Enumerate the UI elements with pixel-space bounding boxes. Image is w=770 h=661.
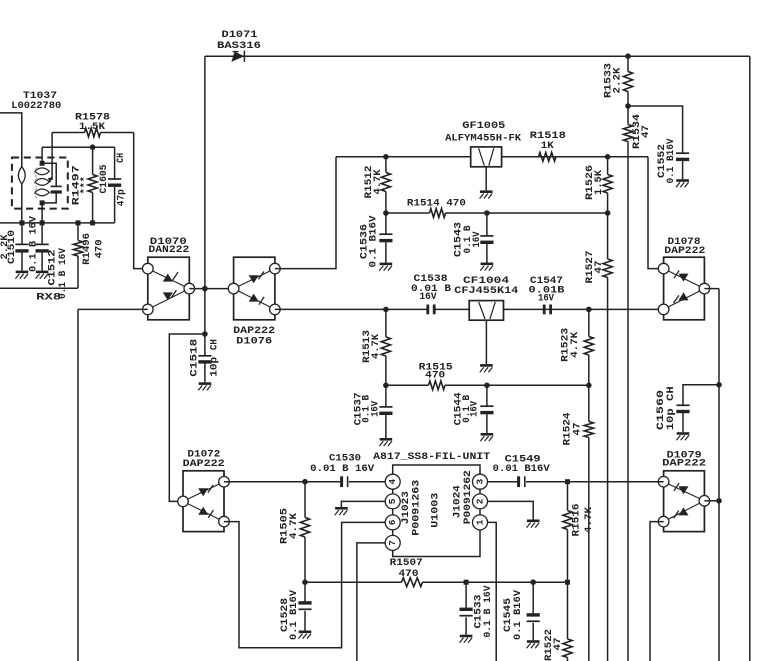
wire GF1005 bus (y=157) xyxy=(336,156,648,158)
svg-text:47: 47 xyxy=(593,261,605,274)
node junction R1516/R1522/bus xyxy=(565,580,570,585)
capacitor C1549 0.01 B16V xyxy=(493,453,551,487)
diode array D1076 DAP222 xyxy=(228,257,280,348)
svg-text:16V: 16V xyxy=(471,231,483,248)
svg-text:0.1 B16V: 0.1 B16V xyxy=(368,215,380,268)
svg-text:RX8: RX8 xyxy=(36,292,61,304)
svg-text:4.7K: 4.7K xyxy=(569,331,581,358)
internal capacitor of T1037 with branch wires xyxy=(42,163,62,203)
capacitor C1537 0.1 B 16V xyxy=(353,385,393,446)
capacitor C1538 0.01 B 16V xyxy=(411,273,452,314)
svg-text:47: 47 xyxy=(552,638,564,651)
node junction top rail / R1533 xyxy=(625,53,631,59)
resistor R1523 4.7K xyxy=(560,309,594,385)
svg-text:C1518: C1518 xyxy=(188,339,200,377)
svg-text:1.5K: 1.5K xyxy=(593,169,605,195)
wire branch to D1072 via left route xyxy=(169,334,205,501)
diode D1071 BAS316 on top rail xyxy=(217,29,261,62)
svg-text:47: 47 xyxy=(572,423,584,436)
svg-text:16V: 16V xyxy=(420,291,438,303)
capacitor C1533 0.1 B 16V xyxy=(460,582,494,643)
capacitor C1518 10p CH xyxy=(188,334,220,390)
node junction D1076/R1513 xyxy=(383,307,389,313)
svg-text:A817_SS8-FIL-UNIT: A817_SS8-FIL-UNIT xyxy=(373,451,490,463)
node junction C1518 branch xyxy=(202,331,208,337)
node junction C1545/bus xyxy=(530,579,536,585)
svg-text:0.1 B16V: 0.1 B16V xyxy=(512,589,524,640)
diode array D1079 DAP222 xyxy=(658,450,709,532)
diode array D1072 DAP222 xyxy=(178,449,230,532)
svg-text:DAP222: DAP222 xyxy=(664,245,705,257)
wire pin5 to ground xyxy=(341,501,385,507)
node junction C1560 branch xyxy=(716,382,722,388)
capacitor C1545 0.1 B16V xyxy=(502,582,540,648)
svg-text:6: 6 xyxy=(387,519,398,525)
transformer T1037 dashed body box xyxy=(12,158,68,209)
node junction R1526/bus xyxy=(605,154,611,160)
wire CF1004 bus (y=309) xyxy=(275,308,664,310)
wire vertical from top rail down to D1070/D1076 junction xyxy=(204,56,206,288)
svg-text:1: 1 xyxy=(475,519,486,525)
svg-text:7: 7 xyxy=(387,540,398,546)
svg-text:10p: 10p xyxy=(208,357,220,377)
wire secondary top up to C1605 bus xyxy=(41,147,43,163)
wire pin3 to C1549 xyxy=(488,481,519,483)
svg-text:U1003: U1003 xyxy=(429,493,441,528)
capacitor C1536 0.1 B16V xyxy=(358,213,392,271)
svg-text:DAP222: DAP222 xyxy=(662,457,706,469)
resistor R1515 470 xyxy=(419,362,453,390)
svg-text:0.01 B16V: 0.01 B16V xyxy=(493,463,551,475)
wire D1079 mid pin to x719 column xyxy=(704,500,719,502)
svg-text:BAS316: BAS316 xyxy=(217,40,261,52)
resistor R1497 *** xyxy=(71,147,98,223)
label RX8 xyxy=(36,292,61,304)
wire D1072 top pin to C1530 xyxy=(224,481,340,483)
resistor R1518 1K xyxy=(530,130,566,161)
wire D1078 mid pin to x719 column xyxy=(704,288,719,290)
node junction R1505/C1530 wire xyxy=(302,479,308,485)
svg-text:R1516: R1516 xyxy=(571,504,583,537)
ceramic filter CF1004 CFJ455K14 xyxy=(454,275,518,372)
svg-text:P0091263: P0091263 xyxy=(411,480,423,536)
capacitor C1543 0.1 B 16V xyxy=(453,213,494,271)
wire RX8 bus xyxy=(0,287,78,289)
node secondary bottom junction xyxy=(40,200,45,205)
svg-text:0.1 B 16V: 0.1 B 16V xyxy=(482,585,494,638)
svg-text:L0022780: L0022780 xyxy=(11,100,61,112)
capacitor C1552 0.1 B16V xyxy=(628,106,689,187)
resistor R1496 470 xyxy=(73,223,105,288)
resistor R1578 1.5K with bus xyxy=(52,112,134,137)
node secondary top junction xyxy=(40,161,45,166)
wire R1514 bus (y=213) xyxy=(386,212,608,214)
ground pin2 xyxy=(527,521,540,528)
svg-text:4.7K: 4.7K xyxy=(370,333,382,359)
capacitor C1512 0.1 B 16V xyxy=(36,223,70,299)
svg-text:C1510: C1510 xyxy=(6,230,18,264)
svg-text:16V: 16V xyxy=(369,400,381,417)
wire x719 column down to bottom xyxy=(718,289,720,661)
resistor R1507 470 xyxy=(390,557,423,587)
label A817_SS8-FIL-UNIT xyxy=(373,451,490,463)
node junction R1496/left-bus xyxy=(76,220,81,225)
ground pin5 xyxy=(335,508,348,515)
svg-text:4.7K: 4.7K xyxy=(288,512,300,539)
svg-text:0.1 B16V: 0.1 B16V xyxy=(665,138,677,184)
pin 6 of U1003 xyxy=(385,515,400,530)
wire left bus (y=223) xyxy=(0,222,115,224)
resistor R1524 47 and column to bottom xyxy=(562,385,594,661)
wire D1070 to D1076 xyxy=(189,288,233,290)
resistor R1505 4.7K xyxy=(278,482,309,583)
svg-text:R1514 470: R1514 470 xyxy=(407,197,466,209)
node junction C1544/bus385 xyxy=(484,383,490,389)
svg-text:4: 4 xyxy=(387,479,398,485)
svg-text:16V: 16V xyxy=(538,292,555,304)
svg-text:0.1 B16V: 0.1 B16V xyxy=(288,589,300,640)
wire C1530 to pin4 xyxy=(349,481,385,483)
node junction D1070/D1076/vertical xyxy=(202,286,208,292)
wire C1605 bus (y=147) xyxy=(42,146,115,148)
transformer T1037 primary winding loop xyxy=(18,167,25,223)
capacitor C1510 0.1 B 16V xyxy=(0,215,39,278)
capacitor C1605 47p CH xyxy=(98,147,128,223)
node junction R1523/bus309 xyxy=(586,307,592,313)
wire pin1 down to bottom xyxy=(488,522,497,661)
capacitor C1547 0.01B 16V xyxy=(529,275,566,314)
svg-text:1.5K: 1.5K xyxy=(79,121,106,133)
resistor R1522 47 xyxy=(543,582,572,661)
svg-text:16V: 16V xyxy=(469,400,481,417)
svg-text:47p: 47p xyxy=(116,189,128,206)
capacitor C1560 10p CH xyxy=(655,385,719,441)
capacitor C1530 0.01 B 16V xyxy=(310,452,375,487)
wire top rail from D1071 anode junction to top-right corner xyxy=(205,55,750,57)
svg-text:DAN222: DAN222 xyxy=(148,244,189,256)
svg-text:470: 470 xyxy=(425,369,445,381)
svg-text:CFJ455K14: CFJ455K14 xyxy=(454,285,518,297)
wire right edge rail down from top-right corner xyxy=(749,56,751,661)
svg-text:C1605: C1605 xyxy=(98,165,110,194)
svg-text:470: 470 xyxy=(399,568,419,580)
svg-text:2.2K: 2.2K xyxy=(612,67,624,94)
wire junction down to C1518 node xyxy=(204,289,206,334)
wire from R1578 bus down to D1070 pin xyxy=(134,133,148,269)
node junction C1543/bus213 xyxy=(484,210,490,216)
node junction secondary/left-bus xyxy=(40,220,45,225)
svg-text:10p CH: 10p CH xyxy=(665,386,677,430)
svg-text:CH: CH xyxy=(115,153,127,163)
node junction C1533/bus xyxy=(464,580,469,585)
node junction R1505/C1528/bus xyxy=(302,579,308,585)
pin 3 of U1003 xyxy=(473,474,488,489)
svg-text:***: *** xyxy=(80,176,92,194)
node junction R1512/bus xyxy=(383,154,389,160)
wire D1079 lower pin to x650 column xyxy=(650,522,664,661)
svg-text:D1076: D1076 xyxy=(236,336,272,348)
diode array D1070 DAN222 xyxy=(143,236,195,320)
pin 7 of U1003 xyxy=(385,535,400,550)
capacitor C1544 0.1 B 16V xyxy=(453,385,494,441)
resistor R1513 4.7K xyxy=(361,309,391,385)
IC U1003 P0091263/P0091262 filter unit xyxy=(393,465,480,557)
svg-text:470: 470 xyxy=(94,239,106,258)
resistor R1534 47 and column to bottom xyxy=(623,106,652,661)
node junction R1513/C1537 xyxy=(383,383,389,389)
wire D1076 top pin right and up to filter bus xyxy=(275,157,336,269)
wire pin2 to ground xyxy=(488,501,534,519)
svg-text:4.7K: 4.7K xyxy=(583,506,595,533)
wire R1515 bus (y=385) xyxy=(386,384,589,386)
resistor R1527 47 and column to bottom xyxy=(584,213,612,661)
node junction R1512/C1536 xyxy=(383,210,389,216)
resistor R1514 470 xyxy=(407,197,466,217)
node junction primary/left-bus xyxy=(20,220,25,225)
wire D1070 lower pin to left drop xyxy=(78,308,148,310)
diode array D1078 DAP222 xyxy=(658,236,709,320)
label T1037 xyxy=(11,90,61,112)
ceramic filter GF1005 ALFYM455HFK xyxy=(445,120,522,198)
svg-text:1K: 1K xyxy=(541,140,555,152)
svg-text:4.7K: 4.7K xyxy=(372,169,384,195)
svg-text:P0091262: P0091262 xyxy=(462,470,474,524)
svg-text:GF1005: GF1005 xyxy=(462,120,505,132)
capacitor C1528 0.1 B16V xyxy=(279,582,312,640)
wire tap from R1578 bus down to winding tap xyxy=(48,133,53,183)
svg-text:2: 2 xyxy=(475,498,486,504)
pin 5 of U1003 xyxy=(385,494,400,509)
svg-text:R1496: R1496 xyxy=(81,233,93,265)
pin 4 of U1003 xyxy=(385,474,400,489)
node junction R1526/R1527 xyxy=(605,210,611,216)
wire left drop column to bottom edge xyxy=(77,309,79,661)
wire R1507 bus (y=582) xyxy=(305,581,568,583)
svg-text:47: 47 xyxy=(640,125,652,138)
svg-text:0.01 B 16V: 0.01 B 16V xyxy=(310,463,375,475)
node junction R1516/pin3 wire xyxy=(565,479,570,484)
svg-text:DAP222: DAP222 xyxy=(183,458,225,470)
resistor R1526 1.5K xyxy=(584,157,612,213)
node junction R1523/R1524 xyxy=(586,383,592,389)
svg-text:ALFYM455H-FK: ALFYM455H-FK xyxy=(445,132,522,144)
wire pin7 down to bottom xyxy=(357,543,385,661)
pin 2 of U1003 xyxy=(473,494,488,509)
wire bus end down to D1078 top pin xyxy=(648,157,664,269)
wire C1549 to D1079 top pin xyxy=(526,481,664,483)
svg-text:5: 5 xyxy=(387,498,398,504)
wire primary feed from left edge xyxy=(0,113,22,167)
transformer T1037 secondary winding (3 loops) xyxy=(34,168,49,199)
svg-text:CH: CH xyxy=(208,339,220,350)
node junction R1497/bus147 xyxy=(90,144,96,150)
node junction R1533/R1534/C1552 xyxy=(625,103,631,109)
resistor R1533 2.2K xyxy=(603,56,633,106)
resistor R1516 4.7K xyxy=(563,482,595,583)
node junction R1497/left-bus xyxy=(90,220,95,225)
node junction D1079 mid pin/x719 xyxy=(716,498,722,504)
pin 1 of U1003 xyxy=(473,515,488,530)
wire secondary bottom to left bus xyxy=(41,203,43,223)
wire pin6 loop to D1072 lower pin xyxy=(224,522,385,648)
svg-text:3: 3 xyxy=(475,479,486,485)
resistor R1512 4.7K xyxy=(363,157,391,213)
